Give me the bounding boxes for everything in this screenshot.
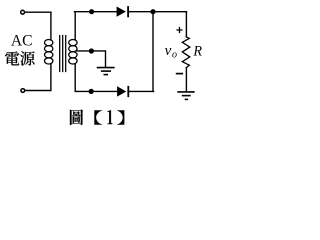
wire center tap to ground	[77, 51, 106, 67]
diode D2 cathode bar	[127, 86, 129, 97]
label 源 (AC source)	[20, 51, 34, 65]
junction node secondary bottom	[89, 89, 94, 94]
svg-text:o: o	[172, 50, 177, 61]
svg-text:AC: AC	[11, 33, 33, 50]
diode D1 triangle	[117, 7, 126, 17]
plus sign	[177, 27, 183, 33]
wire secondary bottom lead	[74, 64, 76, 92]
caption 【	[94, 110, 102, 125]
wire top-left horizontal	[25, 11, 51, 13]
diode D1 cathode bar	[127, 6, 129, 17]
wire bottom rail to diode D2	[75, 90, 117, 92]
minus sign	[176, 73, 183, 75]
ground center-tap	[97, 68, 115, 75]
wire top rail to diode D1	[75, 11, 118, 13]
wire secondary top lead	[74, 12, 76, 40]
transformer T1 core	[60, 36, 66, 72]
svg-text:R: R	[192, 43, 202, 59]
junction node center tap	[89, 48, 94, 53]
caption digit 1	[108, 110, 113, 124]
wire center vertical from node A down	[152, 12, 154, 92]
label 電 (AC source)	[5, 51, 19, 65]
svg-text:v: v	[165, 43, 172, 59]
junction node secondary top	[89, 9, 94, 14]
terminal circle bottom-left	[21, 89, 25, 93]
caption 】	[117, 110, 124, 125]
wire bottom rail diode to center vertical	[129, 90, 154, 92]
wire top rail diode to junction and right corner	[129, 11, 187, 13]
transformer T1 primary coil	[45, 40, 53, 65]
wire resistor bottom to ground	[185, 68, 187, 91]
diode D2 triangle	[117, 86, 126, 96]
caption 圖	[70, 109, 83, 125]
terminal circle top-left	[21, 10, 25, 14]
resistor R zigzag	[182, 37, 190, 68]
ground output	[177, 92, 194, 100]
wire primary top lead	[50, 12, 52, 39]
wire right branch down to resistor	[185, 12, 187, 37]
wire primary bottom lead	[25, 64, 51, 91]
transformer T1 secondary coil	[69, 40, 77, 65]
junction node A (output)	[150, 9, 155, 14]
